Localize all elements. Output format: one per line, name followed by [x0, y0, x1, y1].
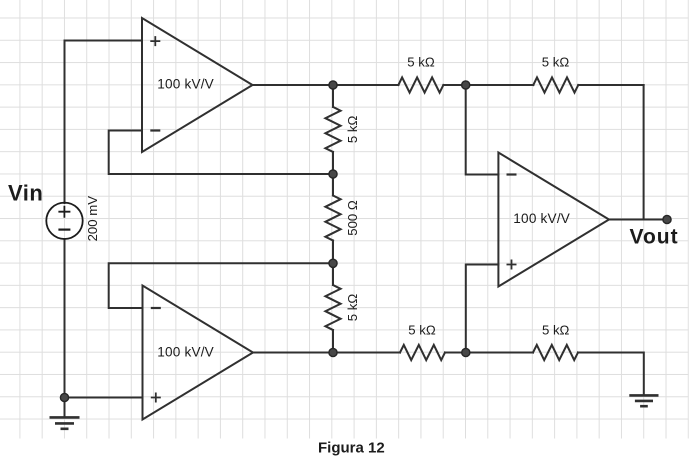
resistor R5 5 kOhm (chain bottom) [325, 285, 340, 330]
wire Vin bottom: source to ground node [64, 239, 66, 398]
wire: R1 to node D [443, 84, 533, 86]
wire: R3 to node B [332, 152, 334, 174]
wire: U1 feedback (U1 - input to node B) [109, 131, 333, 175]
wire: U3 output to Vout terminal [609, 219, 667, 221]
svg-text:100 kV/V: 100 kV/V [513, 211, 570, 226]
svg-text:Vin: Vin [8, 181, 43, 206]
resistor R6 5 kOhm (bottom) [400, 345, 445, 360]
ground GND2 (right) [629, 395, 658, 406]
wire: node F to U3 + input [466, 265, 499, 353]
wire: ground node to U2 + input [65, 397, 143, 399]
wire: R7 to right ground [578, 353, 644, 396]
wire: R2 to right feedback corner [578, 84, 643, 86]
svg-text:5 kΩ: 5 kΩ [407, 55, 435, 70]
svg-text:5 kΩ: 5 kΩ [345, 294, 360, 322]
wire Vin top: source to U1 + input [65, 41, 143, 204]
svg-text:200 mV: 200 mV [85, 196, 100, 242]
wire: R4 to node C [332, 241, 334, 264]
node D junction dot [462, 81, 470, 89]
svg-text:Vout: Vout [630, 226, 679, 249]
ground node junction dot [60, 393, 68, 401]
wire: R5 to node E [332, 330, 334, 353]
voltage source V1 (Vin 200 mV) [46, 203, 82, 239]
wire: node E to R6 [333, 352, 400, 354]
svg-text:5 kΩ: 5 kΩ [345, 116, 360, 144]
svg-text:Figura 12: Figura 12 [318, 440, 385, 457]
wire: node B to R4 [332, 174, 334, 196]
node F junction dot [462, 348, 470, 356]
resistor R2 5 kOhm (top feedback) [533, 77, 578, 92]
svg-text:5 kΩ: 5 kΩ [542, 322, 570, 337]
op-amp U2 (bottom, 100 kV/V) [143, 286, 254, 420]
svg-text:500 Ω: 500 Ω [345, 200, 360, 236]
node B junction dot [329, 170, 337, 178]
wire: node D to U3 - input [466, 85, 499, 175]
wire: node A to R1 [333, 84, 398, 86]
wire: right feedback vertical to Vout line [643, 85, 645, 220]
ground GND1 (left) [50, 398, 80, 429]
node A junction dot [329, 81, 337, 89]
Vout terminal dot [663, 215, 671, 223]
svg-text:100 kV/V: 100 kV/V [157, 345, 214, 360]
op-amp U1 (top, 100 kV/V) [142, 18, 253, 152]
wire: R6 to node F [445, 352, 533, 354]
wire: U2 output to node E [253, 352, 333, 354]
wire: node C to R5 [332, 263, 334, 285]
resistor R4 500 Ohm (chain middle) [325, 196, 340, 241]
node C junction dot [329, 259, 337, 267]
svg-text:5 kΩ: 5 kΩ [408, 322, 436, 337]
svg-text:100 kV/V: 100 kV/V [157, 76, 214, 91]
wire: U1 output to node A [253, 84, 334, 86]
resistor R1 5 kOhm (top) [398, 77, 443, 92]
svg-text:5 kΩ: 5 kΩ [542, 55, 570, 70]
resistor R7 5 kOhm (bottom right) [533, 345, 578, 360]
wire: chain node A to R3 [332, 85, 334, 107]
node E junction dot [329, 348, 337, 356]
resistor R3 5 kOhm (chain top) [325, 107, 340, 152]
wire: U2 feedback (U2 - input to node C) [109, 263, 333, 308]
op-amp U3 (output, 100 kV/V) [498, 153, 609, 287]
